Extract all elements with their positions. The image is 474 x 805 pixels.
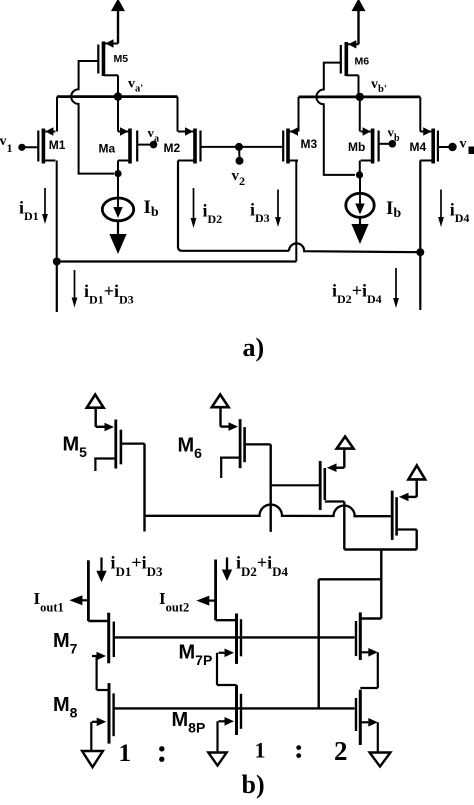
svg-text:M4: M4 [410,140,427,154]
svg-text:M3: M3 [301,137,318,151]
svg-text:b): b) [242,770,265,799]
svg-text:Mb: Mb [348,140,365,154]
svg-text:M2: M2 [164,141,181,155]
svg-text:M5: M5 [114,53,129,65]
svg-text:M6: M6 [355,56,370,68]
svg-text:a): a) [243,333,265,362]
svg-text:M1: M1 [49,138,66,152]
svg-text:2: 2 [334,736,348,766]
svg-text:1: 1 [255,738,266,763]
svg-text:v: v [460,137,467,152]
svg-text:Ma: Ma [99,142,116,156]
svg-text:1: 1 [119,740,132,767]
